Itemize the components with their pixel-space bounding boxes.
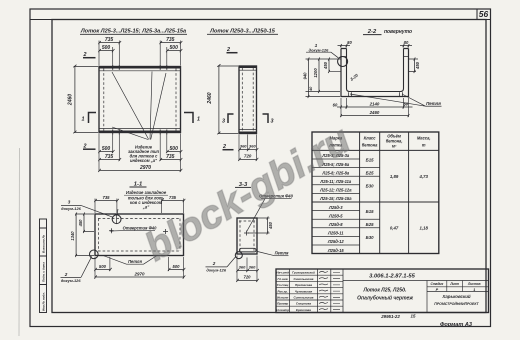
- table volume and mass values: [390, 174, 429, 231]
- petlya label inside bottom: [103, 256, 157, 265]
- svg-text:60: 60: [403, 101, 408, 106]
- svg-text:Б25: Б25: [366, 170, 374, 175]
- organization name: [434, 294, 479, 306]
- table column 2 concrete class: [366, 158, 374, 241]
- svg-text:индексом „а": индексом „а": [130, 158, 157, 163]
- note: embedded item for trays with index a: [128, 144, 159, 163]
- archive number below frame: [380, 314, 416, 319]
- dimension 500 bottom-right: [166, 146, 182, 153]
- section 3-3 rectangle: [237, 218, 257, 254]
- dimension 80 right wall: [400, 40, 412, 48]
- hole cross (3-3): [244, 231, 249, 236]
- svg-text:Ермолова: Ермолова: [296, 308, 311, 312]
- dimension 2460 left of view2: [207, 64, 238, 134]
- dimension 360 360 under view2: [238, 144, 258, 152]
- label 2 dokum-126 (bottom left): [61, 256, 92, 283]
- svg-text:1: 1: [473, 288, 475, 292]
- svg-text:докум-126: докум-126: [309, 47, 329, 52]
- svg-text:2460: 2460: [207, 92, 213, 104]
- svg-text:2-2: 2-2: [367, 29, 377, 35]
- table header texts: [328, 134, 430, 149]
- title block grid: [276, 269, 489, 313]
- svg-text:Л25-15; Л25-15а: Л25-15; Л25-15а: [319, 196, 352, 201]
- dimension 735 top-right (1-1): [161, 195, 186, 202]
- svg-text:500: 500: [170, 146, 179, 152]
- svg-text:Лист: Лист: [449, 282, 459, 286]
- dimension 500 bottom-left (1-1): [94, 264, 112, 271]
- svg-text:Гл.спец: Гл.спец: [277, 283, 289, 287]
- svg-text:м³: м³: [392, 144, 397, 149]
- svg-text:Петля: Петля: [426, 101, 441, 106]
- svg-text:Б15: Б15: [366, 209, 374, 214]
- svg-text:2460: 2460: [369, 110, 380, 115]
- bottom extension lines section 1-1: [95, 257, 184, 279]
- svg-text:1,89: 1,89: [390, 174, 399, 179]
- svg-text:Л25-11; Л25-11а: Л25-11; Л25-11а: [319, 179, 351, 184]
- view2 body rectangle: [239, 66, 257, 134]
- svg-text:720: 720: [244, 274, 252, 279]
- dimension 735 bottom-right: [159, 154, 182, 161]
- section mark 2 (top): [83, 52, 96, 58]
- svg-text:360: 360: [249, 144, 256, 149]
- drawing name: [357, 287, 413, 301]
- section mark 2 (view2 bottom): [222, 144, 234, 150]
- svg-text:ПРОМСТРОЙНИИПРОЕКТ: ПРОМСТРОЙНИИПРОЕКТ: [434, 302, 479, 306]
- svg-text:735: 735: [103, 195, 111, 200]
- document number: [369, 274, 416, 280]
- svg-text:450: 450: [415, 61, 420, 70]
- svg-text:Лоток Л25, Л25д.: Лоток Л25, Л25д.: [362, 287, 406, 293]
- dimension 500 bottom-right (1-1): [168, 264, 186, 271]
- svg-text:Исполн: Исполн: [277, 296, 288, 300]
- section marks 1-1 at mid height: [82, 113, 201, 124]
- svg-text:Опалубочный чертеж: Опалубочный чертеж: [357, 294, 413, 301]
- svg-text:Л25д-11: Л25д-11: [327, 231, 344, 236]
- svg-text:735: 735: [105, 37, 114, 43]
- dimension 500 bottom-left: [98, 146, 114, 153]
- left dimensions 450 and 1340: [70, 212, 94, 257]
- svg-text:500: 500: [170, 45, 179, 51]
- loop circle bottom-left corner: [90, 250, 99, 259]
- svg-text:Листов: Листов: [467, 282, 481, 286]
- svg-text:Харьковский: Харьковский: [441, 294, 470, 299]
- svg-text:Взам.инв.№: Взам.инв.№: [42, 234, 46, 253]
- svg-text:40: 40: [309, 86, 313, 92]
- title block signature rows: [276, 271, 315, 312]
- svg-text:докум-126: докум-126: [61, 206, 81, 211]
- dimension 40 (slab): [309, 86, 313, 92]
- svg-text:Б25: Б25: [366, 222, 374, 227]
- svg-text:Изделие закладное: Изделие закладное: [126, 190, 167, 195]
- svg-text:Петля: Петля: [128, 259, 142, 264]
- dimension 2970 bottom: [98, 165, 182, 172]
- svg-text:60: 60: [333, 102, 338, 107]
- svg-text:Нач.отд: Нач.отд: [276, 271, 289, 275]
- heading section 3-3: [235, 182, 251, 188]
- dimension 735 top-right: [159, 37, 182, 44]
- dimension 1200: [313, 57, 320, 93]
- dimension 720 (3-3): [236, 274, 259, 282]
- heading section 1-1: [130, 181, 147, 187]
- svg-text:29951-22: 29951-22: [380, 314, 400, 319]
- svg-text:3: 3: [271, 119, 274, 125]
- svg-text:Р: Р: [436, 288, 439, 292]
- svg-text:Протасова: Протасова: [295, 283, 312, 287]
- svg-text:500: 500: [173, 264, 181, 269]
- svg-text:1340: 1340: [70, 231, 75, 241]
- svg-text:360: 360: [240, 144, 247, 149]
- dimension 450 right of 3-3: [248, 216, 273, 234]
- svg-text:500: 500: [102, 146, 111, 152]
- svg-text:Л25д-3: Л25д-3: [328, 205, 343, 210]
- svg-text:Смирнова: Смирнова: [296, 302, 311, 306]
- svg-text:1,18: 1,18: [420, 226, 429, 231]
- svg-text:500: 500: [102, 45, 111, 51]
- table grid: [312, 132, 439, 254]
- svg-text:3: 3: [222, 119, 225, 125]
- svg-text:450: 450: [268, 221, 273, 230]
- svg-text:Подп. и дата: Подп. и дата: [42, 262, 46, 282]
- svg-text:450: 450: [323, 61, 328, 70]
- svg-text:повернуто: повернуто: [384, 29, 412, 35]
- dimension 2460 left of view1: [68, 65, 99, 134]
- svg-text:Синельников: Синельников: [294, 277, 314, 281]
- svg-text:2: 2: [212, 261, 216, 266]
- svg-text:бетона: бетона: [362, 143, 378, 148]
- dimension 450 (hole offset, right): [409, 57, 421, 73]
- section 1-1 plan rectangle: [95, 214, 184, 256]
- loop circle top-left corner: [112, 215, 121, 225]
- svg-text:Л25д-12: Л25д-12: [327, 239, 345, 244]
- left dimension stack extension lines: [306, 59, 342, 97]
- petlya label section 2-2: [350, 94, 442, 106]
- svg-text:Формат А3: Формат А3: [440, 322, 473, 328]
- svg-text:360: 360: [239, 265, 246, 270]
- view1 leader lines to note: [112, 72, 166, 140]
- left margin stamp strip: [40, 219, 47, 313]
- svg-text:0,47: 0,47: [390, 226, 399, 231]
- inner drawing frame: [30, 20, 491, 313]
- lifting loop circle on left wall: [338, 57, 348, 67]
- scan fold artifact line: [18, 148, 21, 336]
- dimension 735 bottom-left: [98, 154, 121, 161]
- svg-text:Масса,: Масса,: [417, 136, 431, 141]
- svg-text:3: 3: [68, 199, 71, 204]
- dimension 360 360 (3-3): [236, 265, 259, 273]
- svg-text:2970: 2970: [139, 165, 151, 171]
- svg-text:940: 940: [303, 72, 308, 80]
- view1 bottom extension lines: [99, 134, 181, 172]
- svg-text:80: 80: [347, 40, 352, 45]
- label 2 dokum-126 (3-3): [206, 257, 236, 273]
- svg-text:2: 2: [64, 272, 68, 277]
- dimension 2970 (1-1): [94, 272, 185, 279]
- svg-text:56: 56: [479, 9, 489, 19]
- svg-text:Чулковская: Чулковская: [295, 289, 313, 293]
- dimension 735 top-left (1-1): [94, 195, 119, 202]
- svg-text:Н.контр: Н.контр: [276, 308, 289, 312]
- svg-text:Провер: Провер: [277, 302, 288, 306]
- label otverstiya f40 inside: [113, 225, 158, 231]
- svg-text:2460: 2460: [68, 94, 74, 106]
- heading section 2-2: [363, 29, 412, 35]
- svg-text:докум-126: докум-126: [206, 268, 226, 273]
- svg-text:Петля: Петля: [275, 250, 289, 255]
- svg-text:735: 735: [169, 195, 177, 200]
- svg-text:Рук.гр.: Рук.гр.: [278, 289, 288, 293]
- dimension 80 left wall: [338, 40, 353, 48]
- top extension lines section 1-1: [95, 199, 184, 214]
- svg-text:735: 735: [166, 37, 175, 43]
- svg-text:4,73: 4,73: [419, 174, 429, 179]
- table column 1 rows: [319, 153, 352, 253]
- loop wire marks in floor: [349, 92, 403, 96]
- page number cell "56": [477, 9, 488, 20]
- svg-text:1: 1: [82, 117, 85, 123]
- svg-text:Лоток Л25-3...Л25-15; Л25-3а..: Лоток Л25-3...Л25-15; Л25-3а...Л25-15а: [80, 29, 186, 35]
- svg-text:Б30: Б30: [366, 184, 374, 189]
- svg-text:Гл.инж: Гл.инж: [278, 277, 289, 281]
- svg-text:15: 15: [411, 314, 416, 319]
- label 3 dokum-126: [61, 199, 113, 217]
- view1 top extension lines: [99, 41, 181, 66]
- svg-text:Л25д-15: Л25д-15: [327, 248, 345, 253]
- view1 edge ticks at embed-plate points: [113, 65, 167, 135]
- svg-text:Стадия: Стадия: [431, 282, 444, 286]
- dimension 2140: [346, 101, 405, 108]
- note: embedded item only for index a: [117, 190, 168, 215]
- label 1 dokum-126: [306, 43, 338, 58]
- svg-text:450: 450: [78, 219, 83, 228]
- svg-text:1-1: 1-1: [134, 181, 142, 187]
- dimension 500 top-left: [98, 45, 114, 52]
- svg-text:Лоток Л25д-3...Л25д-15: Лоток Л25д-3...Л25д-15: [209, 29, 276, 35]
- svg-text:Л25-12; Л25-12а: Л25-12; Л25-12а: [319, 188, 352, 193]
- section marks 3-3 on view2: [222, 114, 274, 125]
- svg-text:2970: 2970: [133, 272, 145, 277]
- svg-text:500: 500: [99, 264, 107, 269]
- title block signature squiggles: [319, 272, 340, 310]
- svg-text:Григорьевский: Григорьевский: [292, 271, 315, 275]
- loop circle bottom-left (3-3): [235, 252, 242, 259]
- dimension 720 under view2: [238, 154, 258, 162]
- holes with crosses: [109, 228, 168, 234]
- svg-text:735: 735: [105, 154, 114, 160]
- svg-text:Л25д-5: Л25д-5: [328, 213, 343, 218]
- view1 body rectangle: [99, 67, 181, 133]
- loop bar inside slab (3-3): [240, 248, 257, 252]
- stage sheet cells: [431, 282, 481, 292]
- dimension 60 right: [403, 101, 412, 107]
- dimension 500 top-right: [166, 45, 182, 52]
- section mark 2 (view2 top): [226, 47, 238, 53]
- svg-text:1200: 1200: [313, 68, 318, 78]
- heading view2: [207, 29, 278, 35]
- svg-text:2140: 2140: [369, 101, 380, 106]
- label otverstiya f40 (3-3): [247, 193, 294, 231]
- dimension 60 left: [333, 102, 348, 108]
- svg-text:Класс: Класс: [364, 136, 377, 141]
- heading view1: [80, 29, 187, 35]
- bottom extension lines section 2-2: [341, 98, 409, 117]
- svg-text:80: 80: [404, 40, 409, 45]
- svg-text:докум-126: докум-126: [61, 278, 81, 283]
- thickness note 2-20: [349, 72, 359, 82]
- svg-text:3.006.1-2.87.1-55: 3.006.1-2.87.1-55: [369, 274, 416, 280]
- section mark 2 (bottom): [83, 144, 96, 150]
- channel U-profile outer contour: [341, 49, 409, 97]
- petlya label (3-3): [258, 250, 289, 255]
- svg-text:1: 1: [197, 117, 200, 123]
- svg-text:Б15: Б15: [366, 158, 374, 163]
- format note: [440, 322, 473, 328]
- svg-text:720: 720: [244, 154, 252, 159]
- bottom extension lines (3-3): [237, 256, 257, 282]
- channel U-profile inner contour with fillets: [341, 49, 409, 92]
- svg-text:δ-20: δ-20: [349, 72, 359, 82]
- svg-text:т: т: [422, 143, 426, 148]
- svg-text:„а": „а": [142, 204, 150, 209]
- svg-text:735: 735: [166, 154, 175, 160]
- dimension 2460 bottom section 2-2: [340, 110, 409, 117]
- svg-text:Инв.№ подл.: Инв.№ подл.: [42, 292, 46, 311]
- watermark block-gbi.ru: [138, 117, 358, 270]
- view2 bottom extension lines: [239, 135, 257, 161]
- svg-text:Л25д-8: Л25д-8: [328, 222, 343, 227]
- dimension 735 top-left: [98, 37, 121, 44]
- dimension 940: [303, 57, 310, 98]
- svg-text:Б30: Б30: [366, 235, 374, 240]
- dimension 450 (hole offset, left): [323, 57, 341, 73]
- svg-text:Синельников: Синельников: [294, 296, 314, 300]
- svg-text:360: 360: [249, 265, 256, 270]
